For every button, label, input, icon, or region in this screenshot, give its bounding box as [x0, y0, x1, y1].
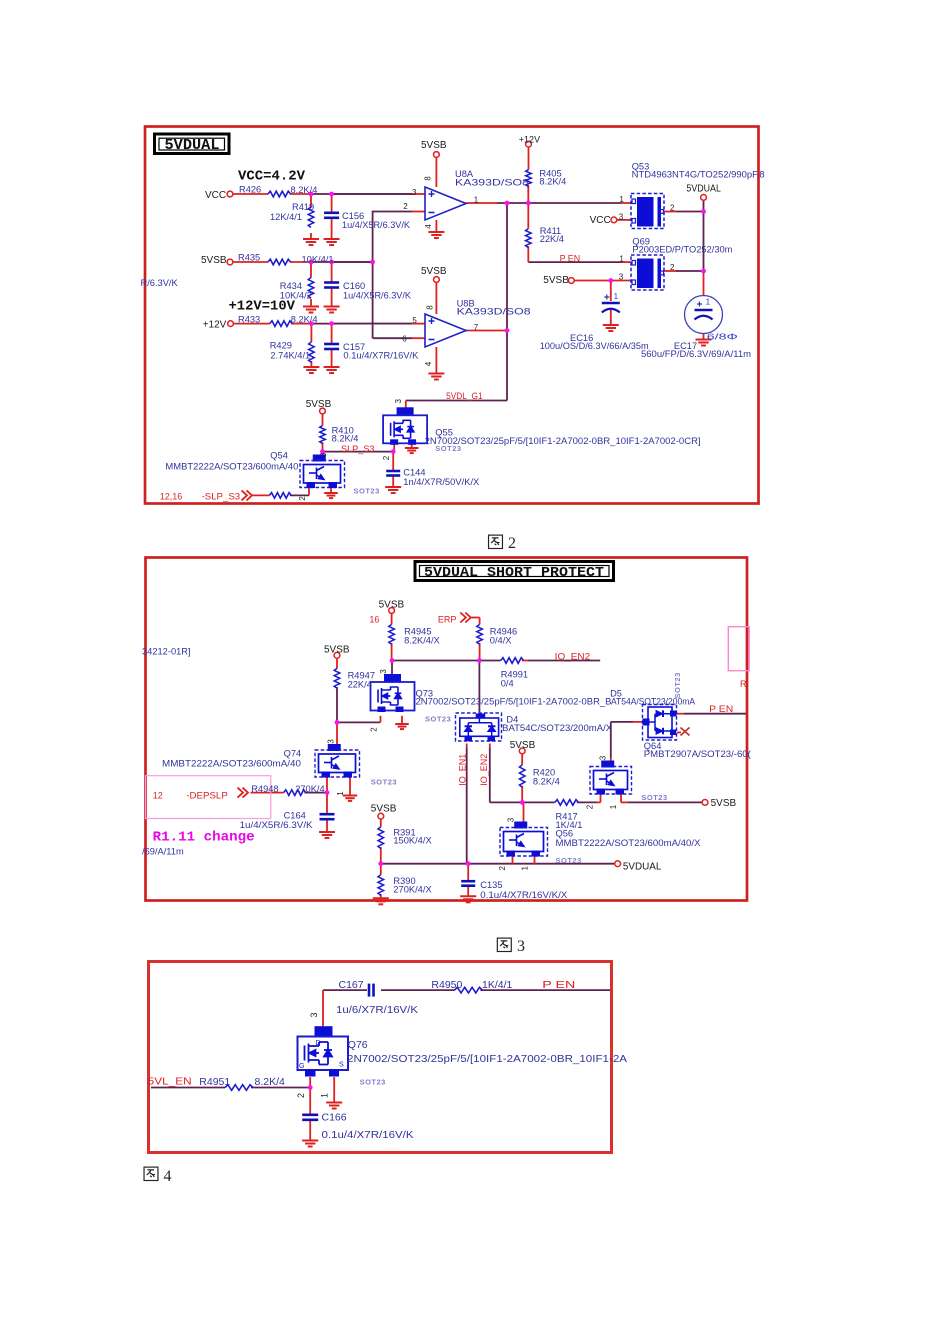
svg-text:3: 3 — [517, 938, 525, 955]
svg-text:R426: R426 — [239, 185, 261, 195]
svg-text:2.74K/4/1: 2.74K/4/1 — [270, 351, 310, 361]
svg-text:2: 2 — [508, 535, 516, 552]
svg-text:2: 2 — [296, 1093, 306, 1098]
svg-text:3: 3 — [507, 817, 516, 822]
svg-text:5VDL_G1: 5VDL_G1 — [446, 391, 483, 401]
svg-text:560u/FP/D/6.3V/69/A/11m: 560u/FP/D/6.3V/69/A/11m — [641, 349, 751, 359]
svg-text:16: 16 — [369, 615, 379, 625]
svg-text:34212-01R]: 34212-01R] — [142, 646, 191, 656]
svg-text:Q74: Q74 — [284, 749, 302, 759]
svg-text:0.1u/4/X7R/16V/K/X: 0.1u/4/X7R/16V/K/X — [480, 890, 567, 900]
svg-text:Q54: Q54 — [270, 450, 288, 460]
svg-text:KA393D/SO8: KA393D/SO8 — [457, 307, 531, 317]
svg-text:P EN: P EN — [709, 704, 733, 714]
svg-text:2N7002/SOT23/25pF/5/[10IF1-2A7: 2N7002/SOT23/25pF/5/[10IF1-2A7002-0BR_B — [416, 697, 612, 707]
svg-text:R1.11 change: R1.11 change — [153, 831, 255, 846]
svg-text:3: 3 — [319, 452, 328, 457]
svg-text:2: 2 — [403, 202, 408, 211]
svg-text:1u/4/X5R/6.3V/K: 1u/4/X5R/6.3V/K — [342, 220, 411, 230]
svg-text:1: 1 — [336, 791, 345, 796]
svg-text:22K/4: 22K/4 — [348, 679, 372, 689]
svg-text:8: 8 — [424, 176, 433, 181]
svg-text:SOT23: SOT23 — [435, 444, 461, 453]
svg-text:1K/4/1: 1K/4/1 — [482, 979, 513, 991]
svg-text:S: S — [339, 1062, 344, 1069]
svg-text:P2003ED/P/TO252/30m: P2003ED/P/TO252/30m — [632, 245, 732, 255]
svg-text:SOT23: SOT23 — [641, 793, 667, 802]
svg-text:D5: D5 — [610, 688, 622, 698]
svg-text:8.2K/4: 8.2K/4 — [291, 185, 318, 195]
svg-text:R429: R429 — [270, 340, 292, 350]
svg-text:C144: C144 — [403, 468, 425, 478]
svg-text:8.2K/4: 8.2K/4 — [533, 776, 560, 786]
svg-text:8.2K/4: 8.2K/4 — [332, 434, 359, 444]
svg-text:5VDUAL: 5VDUAL — [686, 183, 721, 194]
svg-text:SOT23: SOT23 — [360, 1078, 386, 1087]
svg-text:MMBT2222A/SOT23/600mA/40/X: MMBT2222A/SOT23/600mA/40/X — [556, 838, 701, 848]
svg-text:12K/4/1: 12K/4/1 — [270, 212, 302, 222]
svg-text:2N7002/SOT23/25pF/5/[10IF1-2A7: 2N7002/SOT23/25pF/5/[10IF1-2A7002-0BR_10… — [347, 1053, 627, 1065]
svg-text:5VSB: 5VSB — [201, 255, 227, 266]
svg-text:R: R — [740, 679, 747, 689]
svg-text:6/8Φ: 6/8Φ — [707, 332, 738, 342]
svg-text:2: 2 — [585, 804, 594, 809]
svg-text:+12V: +12V — [203, 320, 227, 331]
svg-text:5VL_EN: 5VL_EN — [148, 1076, 192, 1088]
svg-text:3: 3 — [309, 1012, 319, 1017]
svg-text:3: 3 — [379, 669, 388, 674]
svg-text:5: 5 — [412, 316, 417, 325]
svg-text:0/4: 0/4 — [501, 678, 514, 688]
svg-text:SOT23: SOT23 — [371, 778, 397, 787]
svg-text:8.2K/4: 8.2K/4 — [291, 315, 318, 325]
svg-text:2: 2 — [382, 455, 391, 460]
svg-text:IO_EN2: IO_EN2 — [479, 754, 489, 786]
svg-text:1: 1 — [474, 196, 479, 205]
svg-text:AT54A/SOT23/200mA: AT54A/SOT23/200mA — [611, 697, 696, 707]
svg-text:10K/4/2: 10K/4/2 — [280, 290, 312, 300]
svg-text:/69/A/11m: /69/A/11m — [142, 846, 184, 856]
svg-text:5VSB: 5VSB — [306, 399, 332, 410]
svg-text:KA393D/SO8: KA393D/SO8 — [455, 178, 529, 188]
svg-text:5VDUAL SHORT PROTECT: 5VDUAL SHORT PROTECT — [424, 565, 604, 581]
svg-text:270K/4/X: 270K/4/X — [393, 885, 431, 895]
svg-text:4: 4 — [424, 224, 433, 229]
svg-text:BAT54C/SOT23/200mA/X: BAT54C/SOT23/200mA/X — [502, 723, 612, 733]
svg-text:2N7002/SOT23/25pF/5/[10IF1-2A7: 2N7002/SOT23/25pF/5/[10IF1-2A7002-0BR_10… — [425, 436, 701, 446]
svg-text:C167: C167 — [339, 979, 364, 991]
svg-text:MMBT2222A/SOT23/600mA/40: MMBT2222A/SOT23/600mA/40 — [165, 462, 298, 472]
svg-text:SOT23: SOT23 — [673, 672, 682, 698]
svg-text:IO_EN1: IO_EN1 — [458, 754, 468, 786]
svg-text:ERP: ERP — [438, 615, 457, 625]
svg-text:7: 7 — [474, 323, 479, 332]
svg-text:22K/4: 22K/4 — [540, 234, 564, 244]
svg-text:5VSB: 5VSB — [543, 275, 569, 286]
svg-text:150K/4/X: 150K/4/X — [393, 835, 431, 845]
svg-text:8.2K/4/X: 8.2K/4/X — [404, 635, 440, 645]
svg-text:270K/4: 270K/4 — [295, 784, 324, 794]
svg-text:SOT23: SOT23 — [556, 856, 582, 865]
svg-text:SOT23: SOT23 — [425, 715, 451, 724]
svg-text:SLP_S3: SLP_S3 — [341, 444, 375, 454]
svg-text:P EN: P EN — [560, 254, 581, 264]
svg-text:2: 2 — [498, 866, 507, 871]
svg-text:5VSB: 5VSB — [379, 600, 405, 611]
svg-text:1u/4/X5R/6.3V/K: 1u/4/X5R/6.3V/K — [240, 820, 314, 830]
svg-text:-SLP_S3: -SLP_S3 — [202, 491, 241, 501]
svg-text:3: 3 — [599, 755, 608, 760]
svg-text:R419: R419 — [292, 202, 314, 212]
svg-text:VCC: VCC — [590, 215, 611, 226]
svg-text:R435: R435 — [238, 253, 260, 263]
svg-text:100u/OS/D/6.3V/66/A/35m: 100u/OS/D/6.3V/66/A/35m — [540, 341, 649, 351]
svg-text:R4951: R4951 — [199, 1076, 230, 1088]
svg-text:2: 2 — [670, 263, 675, 272]
svg-text:G: G — [299, 1063, 304, 1070]
svg-text:VCC: VCC — [205, 190, 226, 201]
svg-text:R433: R433 — [238, 315, 260, 325]
svg-text:C135: C135 — [480, 880, 502, 890]
svg-text:8.2K/4: 8.2K/4 — [255, 1076, 286, 1088]
svg-text:1u/6/X7R/16V/K: 1u/6/X7R/16V/K — [336, 1004, 418, 1016]
svg-text:3: 3 — [326, 739, 335, 744]
svg-text:6: 6 — [402, 335, 407, 344]
svg-text:0.1u/4/X7R/16V/K: 0.1u/4/X7R/16V/K — [322, 1129, 414, 1141]
svg-text:1u/4/X5R/6.3V/K: 1u/4/X5R/6.3V/K — [343, 290, 412, 300]
svg-text:4: 4 — [424, 361, 433, 366]
svg-text:3: 3 — [619, 212, 624, 221]
svg-text:3: 3 — [619, 272, 624, 281]
svg-text:PMBT2907A/SOT23/-60(: PMBT2907A/SOT23/-60( — [644, 749, 752, 759]
svg-text:5VDUAL: 5VDUAL — [623, 862, 662, 873]
svg-text:Q76: Q76 — [348, 1039, 368, 1051]
svg-text:8: 8 — [426, 305, 435, 310]
svg-text:IO_EN2: IO_EN2 — [555, 652, 591, 662]
svg-text:+12V: +12V — [519, 135, 540, 145]
svg-text:0.1u/4/X7R/16V/K: 0.1u/4/X7R/16V/K — [343, 351, 419, 361]
svg-text:5VSB: 5VSB — [510, 740, 536, 751]
svg-text:VCC=4.2V: VCC=4.2V — [238, 169, 306, 185]
svg-text:1: 1 — [619, 255, 624, 264]
svg-text:+12V=10V: +12V=10V — [229, 299, 296, 315]
svg-text:R/6.3V/K: R/6.3V/K — [141, 278, 179, 288]
svg-text:MMBT2222A/SOT23/600mA/40: MMBT2222A/SOT23/600mA/40 — [162, 758, 301, 768]
svg-text:0/4/X: 0/4/X — [490, 635, 512, 645]
svg-text:12: 12 — [153, 790, 163, 800]
svg-text:2: 2 — [298, 496, 307, 501]
svg-text:3: 3 — [412, 188, 417, 197]
svg-text:12,16: 12,16 — [160, 491, 183, 501]
svg-text:5VSB: 5VSB — [421, 140, 447, 151]
svg-text:2: 2 — [670, 204, 675, 213]
svg-text:1: 1 — [320, 1093, 330, 1098]
svg-text:5VSB: 5VSB — [371, 804, 397, 815]
svg-text:3: 3 — [394, 398, 403, 403]
svg-text:Q56: Q56 — [556, 829, 574, 839]
svg-text:-DEPSLP: -DEPSLP — [186, 790, 228, 800]
svg-text:D: D — [316, 1040, 321, 1047]
svg-text:P EN: P EN — [542, 979, 575, 991]
svg-text:5VSB: 5VSB — [421, 266, 447, 277]
svg-text:1: 1 — [614, 291, 619, 301]
svg-text:4: 4 — [164, 1168, 172, 1185]
svg-text:5VDUAL: 5VDUAL — [165, 137, 220, 154]
svg-text:R4948: R4948 — [251, 784, 278, 794]
svg-text:8.2K/4: 8.2K/4 — [539, 177, 566, 187]
svg-text:1: 1 — [521, 866, 530, 871]
svg-text:2: 2 — [369, 727, 378, 732]
svg-text:1: 1 — [609, 804, 618, 809]
svg-text:1: 1 — [619, 195, 624, 204]
svg-text:1n/4/X7R/50V/K/X: 1n/4/X7R/50V/K/X — [403, 477, 479, 487]
svg-text:R4950: R4950 — [431, 979, 462, 991]
svg-text:5VSB: 5VSB — [711, 798, 737, 809]
svg-text:C166: C166 — [322, 1112, 347, 1124]
svg-text:5VSB: 5VSB — [324, 645, 350, 656]
svg-text:1: 1 — [706, 297, 711, 307]
svg-text:NTD4963NT4G/TO252/990pF.8: NTD4963NT4G/TO252/990pF.8 — [632, 170, 765, 180]
svg-text:SOT23: SOT23 — [354, 487, 380, 496]
svg-text:10K/4/1: 10K/4/1 — [302, 255, 334, 265]
